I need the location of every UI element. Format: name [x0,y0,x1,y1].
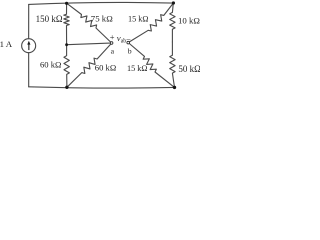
current source circle [22,39,36,53]
wire left edge lower [28,53,30,87]
svg-text:−: − [126,34,131,44]
resistor 10 kOhm [170,3,175,42]
terminal a [110,42,113,45]
wire bottom rail [29,87,175,88]
resistor 150 kOhm [64,3,69,45]
junction dot B2 [173,86,176,89]
svg-text:10 kΩ: 10 kΩ [178,15,200,25]
terminal b [127,41,130,44]
junction dot T2 [172,1,175,4]
wire node M to node a [67,43,111,45]
junction dot T1 [65,2,68,5]
resistor 15 kOhm bottom [129,44,174,88]
svg-text:75 kΩ: 75 kΩ [91,14,113,24]
junction dot B1 [65,86,68,89]
svg-text:15 kΩ: 15 kΩ [127,64,147,73]
svg-text:60 kΩ: 60 kΩ [40,59,61,69]
resistor 75 kOhm [67,3,111,42]
resistor 60 kOhm left [64,45,69,88]
resistor 15 kOhm top [129,3,173,42]
junction dot M [65,43,68,46]
svg-text:60 kΩ: 60 kΩ [95,63,116,73]
svg-text:b: b [128,47,132,56]
svg-text:50 kΩ: 50 kΩ [178,64,200,74]
svg-text:150 kΩ: 150 kΩ [36,14,63,24]
resistor 50 kOhm [170,42,175,87]
svg-text:1 A: 1 A [0,39,13,49]
resistor 60 kOhm middle [67,44,111,87]
wire top rail [29,2,174,4]
svg-text:+: + [110,32,115,42]
current source arrow [27,41,30,50]
svg-text:a: a [111,47,115,56]
svg-text:15 kΩ: 15 kΩ [128,15,148,24]
wire left edge upper [28,4,30,38]
svg-text:vab: vab [117,33,126,45]
